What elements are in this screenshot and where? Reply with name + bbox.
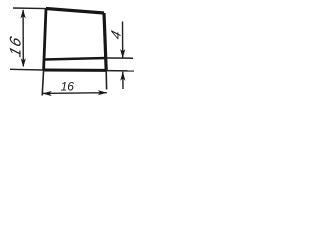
square profile outline: bottom edge [44, 69, 107, 72]
right dimension arrow down [120, 49, 125, 58]
right dimension line 4 upper segment [122, 22, 124, 58]
extension line top-left [13, 7, 46, 10]
extension line right of strip top [106, 57, 133, 59]
square profile outline: right edge [104, 13, 106, 70]
extension line below bottom-left corner [42, 70, 43, 96]
bottom dimension arrow left [43, 91, 52, 96]
left dimension arrow down [21, 58, 26, 67]
bottom dimension arrow right [98, 90, 107, 95]
svg-text:16: 16 [61, 79, 75, 93]
extension line right of strip bottom [106, 70, 134, 72]
square profile outline: left edge [44, 9, 46, 71]
left dimension arrow up [21, 9, 26, 18]
left dimension line 16 [22, 10, 24, 66]
square profile outline: top edge [46, 9, 104, 14]
bottom dimension line 16 [43, 92, 107, 95]
extension line below bottom-right corner [105, 71, 107, 90]
bottom strip top line [45, 58, 107, 60]
svg-text:4: 4 [108, 28, 124, 41]
right dimension arrow up [120, 72, 125, 81]
right dimension line 4 lower segment [122, 72, 124, 89]
svg-text:16: 16 [8, 33, 25, 59]
extension line bottom-left [10, 68, 44, 71]
